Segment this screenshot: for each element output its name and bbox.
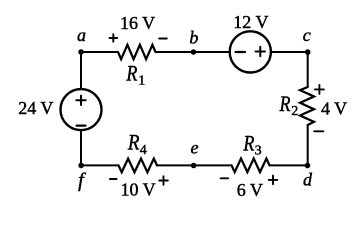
svg-text:a: a — [77, 25, 86, 45]
wire R1 to source V12 (through node b) — [156, 51, 231, 53]
svg-text:R: R — [126, 61, 138, 86]
minus polarity mark below R2 — [314, 130, 323, 132]
minus polarity mark left of R3 — [221, 177, 229, 179]
resistor R4 — [119, 159, 158, 173]
minus polarity mark left of R4 — [110, 178, 117, 180]
voltage source 24V circle — [61, 89, 102, 130]
svg-text:f: f — [78, 170, 86, 192]
svg-text:6 V: 6 V — [237, 180, 263, 200]
wire a to R1 — [81, 51, 118, 53]
wire R2 to node d — [307, 125, 309, 165]
svg-text:4: 4 — [140, 143, 147, 158]
svg-text:10 V: 10 V — [121, 180, 156, 200]
svg-text:c: c — [303, 25, 311, 45]
svg-text:b: b — [189, 27, 198, 47]
wire c down to R2 — [307, 52, 309, 87]
svg-text:3: 3 — [255, 144, 262, 159]
plus polarity mark left of R1 — [110, 34, 118, 42]
plus sign inside 24V source — [76, 96, 85, 105]
svg-text:1: 1 — [138, 73, 145, 88]
minus sign inside 24V source — [77, 124, 86, 126]
minus polarity mark right of R1 — [159, 38, 167, 40]
node c junction dot — [305, 49, 311, 55]
plus sign inside 12V source — [256, 47, 265, 56]
wire V12 to node c — [271, 51, 308, 53]
wire d to R3 — [270, 164, 308, 166]
plus polarity mark right of R4 — [159, 176, 168, 185]
svg-text:e: e — [191, 138, 199, 158]
wire R3 to R4 (through node e) — [157, 164, 232, 166]
plus polarity mark right of R3 — [269, 176, 278, 185]
resistor R3 — [232, 159, 270, 173]
resistor R2 — [300, 87, 314, 125]
node e junction dot — [191, 163, 197, 169]
svg-text:2: 2 — [291, 104, 298, 119]
svg-text:12 V: 12 V — [233, 12, 268, 32]
node a junction dot — [78, 49, 84, 55]
minus sign inside 12V source — [236, 51, 245, 53]
svg-text:R: R — [243, 130, 255, 155]
node b junction dot — [191, 49, 197, 55]
svg-text:24 V: 24 V — [18, 98, 53, 118]
plus polarity mark above R2 — [315, 85, 324, 94]
node f junction dot — [78, 163, 84, 169]
voltage source 12V circle — [230, 31, 271, 72]
svg-text:16 V: 16 V — [120, 13, 155, 33]
svg-text:R: R — [127, 129, 140, 154]
resistor R1 — [118, 45, 156, 59]
wire V24 to node a — [80, 52, 82, 89]
svg-text:R: R — [279, 91, 291, 116]
wire f up to source V24 — [80, 130, 82, 165]
node d junction dot — [305, 163, 311, 169]
svg-text:4 V: 4 V — [321, 99, 347, 119]
wire R4 to node f — [81, 164, 119, 166]
svg-text:d: d — [303, 170, 313, 190]
